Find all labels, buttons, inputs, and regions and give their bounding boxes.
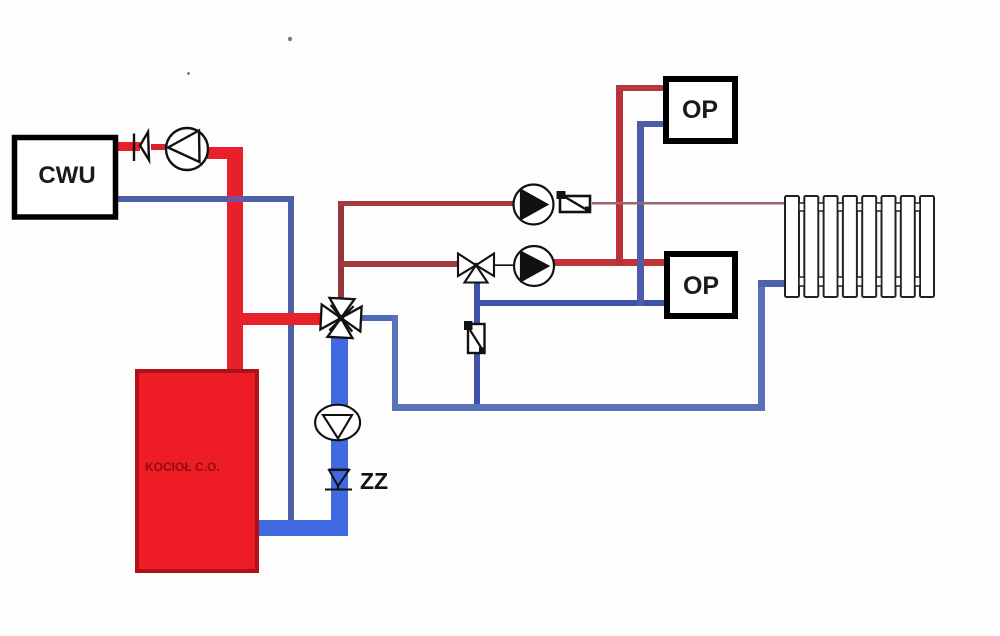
svg-text:KOCIOŁ C.O.: KOCIOŁ C.O.: [145, 460, 220, 474]
svg-text:CWU: CWU: [38, 162, 95, 189]
svg-text:ZZ: ZZ: [360, 468, 388, 494]
svg-text:OP: OP: [682, 96, 718, 124]
svg-text:OP: OP: [683, 272, 719, 300]
